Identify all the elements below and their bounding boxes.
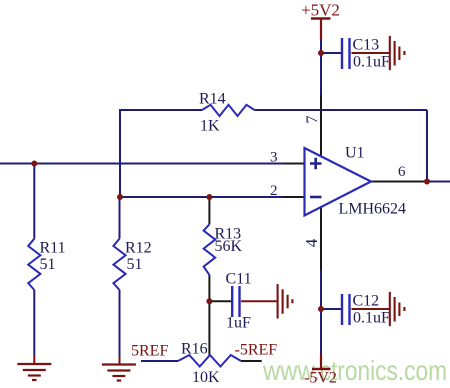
wire -5V2 stem maroon: [320, 354, 322, 369]
ground at C12: [390, 292, 405, 326]
op-amp U1: [305, 145, 407, 218]
wire feedback left vertical: [119, 110, 121, 197]
wire drop to R16 center: [208, 301, 210, 356]
wire C12 tap: [321, 308, 341, 310]
svg-text:R12: R12: [125, 240, 152, 257]
svg-text:6: 6: [398, 164, 406, 180]
wire R11 column upper: [33, 164, 35, 239]
svg-text:5REF: 5REF: [131, 343, 168, 360]
ground at C13: [390, 36, 405, 70]
junction node -5V2/C12: [318, 306, 324, 312]
wire R13 bottom lead: [208, 275, 210, 301]
svg-text:U1: U1: [345, 145, 365, 162]
svg-text:51: 51: [127, 256, 143, 273]
junction node R13/C11: [206, 298, 212, 304]
wire C12 to ground maroon: [352, 308, 390, 310]
svg-text:-5REF: -5REF: [235, 342, 278, 359]
wire C13 tap: [321, 52, 341, 54]
svg-text:56K: 56K: [215, 238, 243, 255]
svg-text:4: 4: [302, 238, 321, 247]
capacitor C13: [342, 37, 390, 71]
svg-text:10K: 10K: [192, 369, 220, 386]
wire feedback top right from R14: [255, 109, 428, 111]
junction node output/feedback: [424, 179, 430, 185]
svg-text:1K: 1K: [200, 118, 220, 135]
pin 4 black segment: [320, 207, 322, 270]
resistor R11: [28, 239, 65, 290]
svg-text:C13: C13: [353, 37, 380, 54]
pin 2 black segment: [283, 196, 305, 198]
svg-text:R14: R14: [199, 91, 226, 108]
wire feedback right vertical: [426, 110, 428, 182]
resistor R16: [178, 341, 241, 387]
svg-text:+5V2: +5V2: [301, 1, 340, 20]
wire pin3 input net: [0, 163, 283, 165]
svg-text:3: 3: [270, 150, 278, 166]
pin 3 black segment: [283, 163, 305, 165]
wire R12 column lower: [119, 290, 121, 357]
pin 7 black segment: [320, 95, 322, 157]
svg-text:1uF: 1uF: [226, 315, 251, 332]
junction node +5V2/C13: [318, 50, 324, 56]
capacitor C12: [342, 293, 390, 327]
wire output pin6 black pin segment: [370, 181, 427, 183]
wire C11 to ground maroon: [241, 300, 277, 302]
svg-text:R16: R16: [181, 341, 208, 358]
wire output right to edge: [427, 181, 450, 183]
ground at C11: [278, 284, 293, 318]
wire R11 column lower: [33, 290, 35, 356]
svg-text:R11: R11: [40, 240, 66, 257]
svg-text:tronics.com: tronics.com: [331, 355, 447, 386]
ground at R11: [17, 364, 51, 380]
svg-text:C11: C11: [226, 271, 252, 288]
wire pin2 net: [120, 196, 283, 198]
wire R11 ground stub maroon: [33, 356, 35, 364]
svg-text:0.1uF: 0.1uF: [353, 310, 390, 327]
wire feedback top left to R14: [119, 109, 202, 111]
wire R13 top lead: [208, 197, 210, 224]
junction node feedback/R12: [117, 194, 123, 200]
svg-text:-5V2: -5V2: [304, 370, 337, 387]
junction node R13 top: [206, 194, 212, 200]
wire R16 left lead: [141, 360, 178, 362]
wire pin4 stem navy: [320, 270, 322, 354]
power -5V2: [304, 369, 337, 387]
svg-text:LMH6624: LMH6624: [339, 201, 407, 218]
junction node input/R11: [31, 161, 37, 167]
svg-text:0.1uF: 0.1uF: [353, 54, 390, 71]
svg-text:51: 51: [40, 256, 56, 273]
wire R12 column upper: [119, 197, 121, 239]
power +5V2: [301, 1, 340, 20]
svg-text:2: 2: [270, 183, 278, 199]
wire +5V2 stem upper maroon: [320, 19, 322, 41]
resistor R12: [113, 239, 151, 290]
resistor R14: [199, 91, 255, 135]
wire R16 right lead: [241, 360, 262, 362]
resistor R13: [204, 224, 243, 275]
wire +5V2 stem navy: [320, 40, 322, 95]
ground at R12: [102, 365, 136, 381]
wire R12 ground stub maroon: [119, 357, 121, 365]
wire C13 to ground maroon: [352, 52, 390, 54]
svg-text:7: 7: [304, 116, 321, 124]
capacitor C11: [226, 271, 252, 332]
wire C11 left lead: [209, 300, 231, 302]
svg-text:C12: C12: [353, 293, 380, 310]
